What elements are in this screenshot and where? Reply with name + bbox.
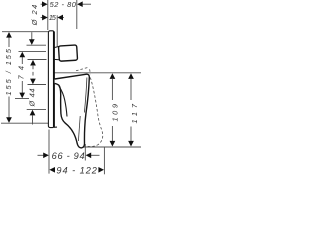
svg-text:109: 109	[111, 104, 120, 122]
svg-text:15: 15	[49, 13, 57, 22]
svg-text:Ø 44: Ø 44	[28, 89, 37, 108]
svg-text:52 - 80: 52 - 80	[50, 0, 77, 9]
svg-text:74: 74	[17, 66, 26, 80]
svg-text:94 - 122: 94 - 122	[56, 165, 97, 175]
svg-text:155 / 155: 155 / 155	[4, 48, 13, 95]
svg-text:66 - 94: 66 - 94	[52, 151, 85, 161]
svg-text:Ø 24: Ø 24	[30, 5, 39, 27]
svg-text:117: 117	[130, 103, 139, 123]
